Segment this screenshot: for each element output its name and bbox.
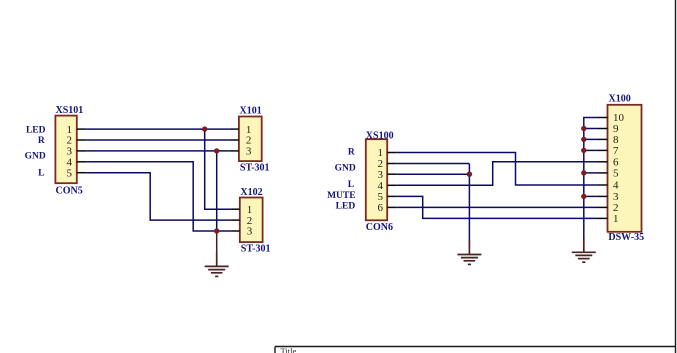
junction dot GND at X102.3 wire: [214, 228, 219, 233]
wire XS101.5 to X102.2: [86, 173, 230, 220]
svg-text:CON6: CON6: [366, 222, 393, 233]
wire GND XS100.3: [397, 173, 470, 175]
svg-text:MUTE: MUTE: [327, 191, 356, 201]
ground symbol left: [205, 253, 229, 277]
svg-text:3: 3: [247, 226, 253, 238]
wire MUTE net XS100.5 to X100.1: [397, 196, 598, 218]
XS100 pin numbers: [378, 147, 384, 214]
svg-text:5: 5: [67, 167, 73, 179]
connector X101: [229, 117, 261, 162]
svg-text:ST-301: ST-301: [240, 162, 270, 173]
junction dot X100.9: [581, 126, 586, 131]
connector X102: [230, 198, 262, 243]
svg-text:DSW-35: DSW-35: [608, 232, 644, 243]
svg-text:LED: LED: [336, 201, 356, 211]
svg-text:GND: GND: [335, 164, 356, 174]
svg-text:GND: GND: [25, 152, 46, 162]
svg-text:4: 4: [613, 180, 619, 192]
connector X100: [598, 105, 642, 232]
XS101 pin numbers: [67, 124, 73, 180]
svg-text:X101: X101: [240, 105, 262, 116]
svg-text:LED: LED: [26, 125, 46, 135]
connector XS101: [55, 116, 86, 184]
ground symbol middle: [457, 241, 481, 265]
svg-text:X100: X100: [609, 94, 631, 105]
wire ground drop middle: [468, 164, 470, 242]
title block top line: [275, 346, 676, 348]
wire XS101.1 to X101.1: [86, 128, 229, 130]
X101 pin numbers: [246, 124, 252, 158]
svg-text:CON5: CON5: [56, 185, 83, 196]
sheet border right edge: [675, 0, 677, 353]
connector XS100: [366, 139, 397, 220]
junction dot X100.8: [581, 137, 586, 142]
junction dot middle ground: [467, 172, 472, 177]
wire XS101.4 to X102.3: [86, 162, 230, 231]
wire X100.3 branch: [584, 195, 598, 197]
svg-text:Title: Title: [281, 346, 297, 353]
wire XS101.2 to X101.2: [86, 139, 229, 141]
wire LED net XS100.6 to X100.2: [397, 206, 598, 208]
svg-text:L: L: [38, 169, 44, 179]
svg-text:3: 3: [246, 146, 252, 158]
junction dot X100.5: [581, 170, 586, 175]
svg-text:X102: X102: [240, 187, 262, 198]
svg-text:R: R: [38, 136, 45, 146]
svg-text:L: L: [348, 180, 354, 190]
wire XS101.3 to X101.3: [86, 150, 229, 152]
wire GND net drop to ground: [216, 151, 218, 232]
wire LED net drop to X102.1: [205, 129, 231, 209]
junction dot LED net: [202, 126, 207, 131]
wire X100.8 branch: [584, 138, 598, 140]
wire X100.5 branch: [584, 172, 598, 174]
wire GND stem below junction: [216, 231, 218, 254]
svg-text:XS100: XS100: [366, 130, 394, 141]
svg-text:R: R: [348, 148, 355, 158]
svg-text:6: 6: [378, 202, 384, 214]
X102 pin numbers: [247, 204, 253, 238]
junction dot GND at XS101.3 wire: [214, 148, 219, 153]
junction dot X100.7: [581, 148, 586, 153]
wire XS100.2 to ground bus: [397, 163, 470, 165]
junction dot X100.3: [581, 194, 586, 199]
title block left line: [274, 347, 276, 353]
wire X100 ground bus vertical: [584, 118, 598, 240]
svg-text:7: 7: [613, 145, 619, 157]
wire X100.9 branch: [584, 128, 598, 130]
svg-text:1: 1: [613, 213, 619, 225]
svg-text:XS101: XS101: [56, 105, 84, 116]
svg-text:5: 5: [613, 168, 619, 180]
wire R net XS100.1 to X100.4: [397, 153, 598, 186]
ground symbol right: [572, 239, 596, 263]
wire L net XS100.4 to X100.6: [397, 162, 598, 186]
svg-text:ST-301: ST-301: [241, 244, 271, 255]
wire X100.7 branch: [584, 149, 598, 151]
X100 pin numbers: [613, 112, 625, 225]
